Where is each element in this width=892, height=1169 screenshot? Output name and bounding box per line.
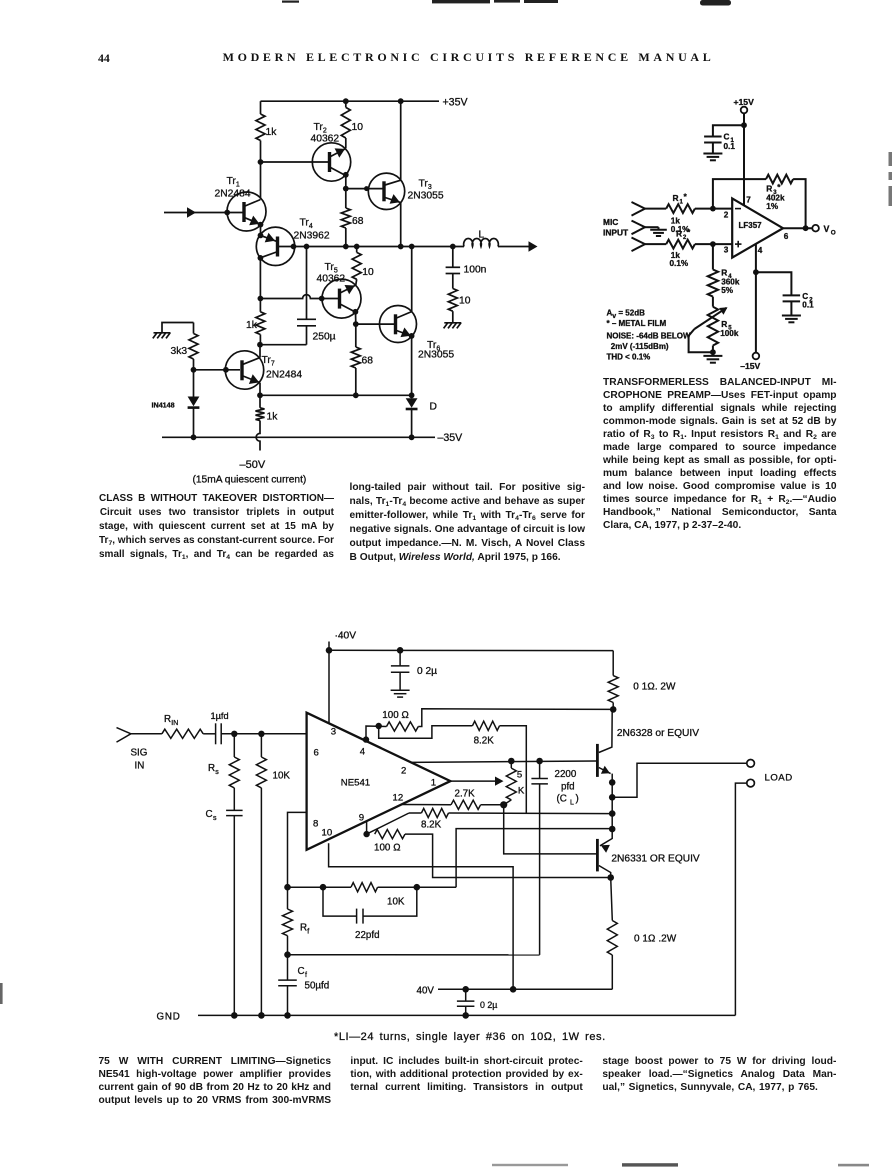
svg-text:2N2484: 2N2484 [266, 370, 302, 381]
svg-text:0 2µ: 0 2µ [480, 1000, 497, 1010]
wire 40V row [417, 986, 613, 997]
wire Tr5 base with hop [258, 295, 325, 302]
svg-text:5%: 5% [721, 286, 734, 295]
wire -35V rail [162, 432, 463, 444]
svg-text:2: 2 [724, 211, 729, 220]
svg-text:R: R [673, 193, 679, 203]
ground 0.2u [391, 690, 410, 697]
svg-text:10: 10 [322, 828, 333, 839]
svg-text:R: R [676, 229, 682, 239]
ground C1 [703, 154, 722, 161]
svg-text:40362: 40362 [317, 274, 346, 285]
svg-text:8: 8 [313, 819, 318, 830]
transistor Tr5 40362 [317, 262, 362, 318]
resistor 68 (upper) [341, 189, 363, 247]
svg-text:1µfd: 1µfd [211, 711, 229, 721]
wire mic input chevron mid + ground [632, 221, 667, 236]
svg-text:LOAD: LOAD [765, 773, 793, 784]
svg-text:40362: 40362 [311, 134, 340, 145]
junction dots on +35V rail [343, 98, 404, 104]
svg-text:R: R [208, 763, 215, 774]
svg-text:5: 5 [517, 770, 522, 781]
wire pin 6 [261, 733, 306, 735]
wire Tr7 emitter node row [257, 383, 414, 398]
capacitor C2 0.1 [756, 272, 814, 315]
node circuit 2 spec notes [607, 309, 691, 362]
wire 250u bottom to Tr7 collector node [257, 342, 306, 348]
svg-text:0.1: 0.1 [724, 142, 736, 151]
wire Rf bottom to 2200pfd column [288, 954, 540, 956]
svg-text:–15V: –15V [740, 361, 760, 371]
capacitor 22pfd [323, 887, 417, 941]
svg-text:·40V: ·40V [335, 631, 357, 642]
svg-text:3k3: 3k3 [171, 346, 188, 357]
svg-text:MIC: MIC [603, 217, 618, 227]
svg-text:f: f [307, 929, 309, 936]
wire output pin 6 [783, 225, 812, 231]
svg-text:9: 9 [359, 813, 364, 824]
svg-text:10: 10 [362, 267, 374, 278]
svg-text:INPUT: INPUT [603, 228, 629, 238]
wire Tr1 emitter to Tr4 emitter node [258, 222, 264, 239]
node +35V label [443, 97, 469, 109]
resistor 1k (Tr7 collector) [246, 299, 265, 345]
op-amp U1 LF357 [724, 196, 789, 258]
wire Tr3 base [346, 186, 383, 191]
svg-text:2: 2 [401, 766, 406, 777]
node MIC INPUT labels [603, 217, 629, 238]
svg-text:12: 12 [393, 793, 404, 804]
capacitor 0.2u (lower) [457, 989, 497, 1015]
svg-text:10K: 10K [387, 897, 405, 908]
svg-text:6: 6 [784, 232, 789, 241]
svg-text:1: 1 [431, 778, 436, 789]
svg-text:C: C [724, 133, 730, 142]
node footnote L1 [334, 1031, 606, 1043]
resistor 0.1ohm 2W (upper) [608, 651, 676, 713]
resistor RIN [162, 714, 216, 738]
svg-text:3: 3 [724, 246, 729, 255]
svg-text:2200: 2200 [555, 769, 577, 780]
wire Tr3 collector to +35V rail [400, 101, 402, 180]
svg-text:+15V: +15V [734, 97, 755, 107]
node Tr2 collector [343, 172, 349, 192]
caption mic preamp column [603, 376, 837, 532]
svg-text:s: s [215, 769, 219, 776]
wire Tr3 emitter to output rail [400, 203, 402, 247]
ground C2 [782, 316, 801, 323]
wire output rail [295, 241, 538, 251]
resistor 2.7K (pin 12) [403, 789, 504, 810]
resistor Rs [208, 734, 239, 811]
op-amp U2 NE541 [307, 713, 451, 850]
wire Tr2 base from 1k node [258, 159, 329, 165]
svg-text:IN4148: IN4148 [152, 401, 175, 410]
terminal LOAD lower [747, 773, 793, 787]
capacitor Cf 50ufd [278, 955, 329, 1016]
svg-text:Tr3: Tr3 [419, 179, 432, 192]
capacitor C1 0.1 [704, 125, 744, 153]
wire -40V top rail [329, 647, 613, 654]
scan artifact top edge marks [282, 0, 731, 6]
wire mic input chevron top [632, 202, 667, 216]
resistor R3 402k 1% feedback [713, 175, 806, 229]
svg-text:Tr1: Tr1 [227, 176, 240, 189]
svg-text:4: 4 [758, 246, 763, 255]
svg-text:GND: GND [157, 1012, 181, 1023]
wire -40V vertical to pin 3 [326, 642, 333, 724]
svg-text:2N3962: 2N3962 [294, 231, 330, 242]
svg-text:L: L [570, 800, 574, 807]
resistor R1 1k 0.1% [666, 192, 732, 235]
caption class B left column [99, 492, 334, 562]
svg-text:2N3055: 2N3055 [408, 191, 444, 202]
svg-text:1%: 1% [766, 202, 779, 211]
svg-text:–35V: –35V [438, 432, 464, 444]
svg-text:100k: 100k [720, 329, 739, 338]
svg-text:0 2µ: 0 2µ [417, 666, 437, 677]
resistor 10K (feedback) [284, 883, 456, 908]
svg-text:R: R [766, 184, 772, 194]
capacitor 100n [446, 247, 487, 289]
scan artifact right edge dashes [889, 152, 892, 206]
svg-text:Tr4: Tr4 [300, 218, 313, 231]
svg-text:IN: IN [135, 761, 145, 772]
svg-text:8.2K: 8.2K [421, 820, 442, 831]
wire mic input chevron bottom [632, 238, 667, 252]
caption 75W col C [602, 1056, 836, 1095]
capacitor 1ufd [211, 711, 265, 744]
wire +35V rail [261, 100, 440, 102]
svg-text:R: R [721, 268, 727, 278]
svg-text:*: * [684, 192, 688, 202]
svg-text:IN: IN [171, 720, 178, 727]
svg-text:(15mA quiescent current): (15mA quiescent current) [193, 475, 307, 486]
svg-text:THD < 0.1%: THD < 0.1% [607, 353, 651, 362]
svg-text:10: 10 [352, 122, 364, 133]
wire 10K right up to output node [456, 829, 612, 888]
svg-text:10: 10 [459, 296, 471, 307]
potentiometer 5K [504, 761, 525, 805]
svg-text:2N3055: 2N3055 [418, 350, 454, 361]
capacitor Cs [206, 809, 243, 1015]
svg-text:1k: 1k [671, 216, 681, 225]
transistor Tr6 2N3055 [380, 306, 455, 361]
junction dots on output rail [304, 244, 456, 250]
wire pin 8 down [288, 812, 307, 887]
resistor 3k3 [171, 323, 199, 370]
wire 2N6331 base [500, 801, 596, 854]
resistor R2 1k 0.1% [666, 227, 732, 268]
svg-text:+35V: +35V [443, 97, 469, 109]
resistor 8.2K (lower) on diagonal [367, 808, 613, 834]
resistor 10 (output zobel) [448, 289, 470, 323]
wire pin 9 stub [363, 822, 369, 838]
transistor Tr7 2N2484 [225, 351, 302, 389]
svg-text:0.1: 0.1 [802, 300, 814, 309]
svg-text:R: R [164, 714, 171, 725]
svg-text:K: K [518, 786, 525, 797]
svg-text:68: 68 [352, 216, 364, 227]
wire LOAD lower to GND rail [735, 783, 746, 1015]
ground (3k3 top) [153, 323, 194, 339]
resistor 100ohm (pin 4) [363, 710, 419, 743]
node -50V label [193, 459, 307, 486]
svg-text:pfd: pfd [561, 782, 575, 793]
svg-text:NE541: NE541 [341, 778, 370, 789]
capacitor 250u [297, 247, 336, 345]
diode IN4148 [152, 370, 200, 438]
caption 75W col A [99, 1056, 332, 1108]
wire Tr6 collector to output rail [411, 247, 413, 312]
svg-text:SIG: SIG [131, 748, 148, 759]
node -40V label [335, 631, 357, 642]
inductor L [464, 230, 499, 247]
svg-text:8.2K: 8.2K [474, 736, 495, 747]
ground (zobel) [444, 323, 462, 329]
svg-text:*: * [687, 227, 691, 237]
svg-text:V: V [824, 224, 830, 234]
svg-text:D: D [430, 402, 437, 413]
transistor Tr3 2N3055 [368, 173, 444, 209]
transistor Tr2 40362 [311, 122, 351, 181]
svg-text:6: 6 [314, 748, 319, 759]
transistor Tr1 2N2484 [215, 176, 267, 231]
transistor Q1 2N6328 [597, 709, 699, 832]
svg-text:O: O [831, 230, 836, 237]
svg-text:68: 68 [362, 356, 374, 367]
wire Tr6 emitter down [411, 336, 413, 395]
scan artifact left edge mark [0, 983, 3, 1004]
svg-text:1k: 1k [266, 127, 278, 138]
svg-text:*LI—24 turns, single layer #36: *LI—24 turns, single layer #36 on 10Ω, 1… [334, 1031, 606, 1043]
wire left column Tr4 collector down [258, 255, 264, 299]
svg-text:* – METAL FILM: * – METAL FILM [607, 319, 667, 328]
svg-text:Tr7: Tr7 [262, 355, 275, 368]
wire signal input chevron [117, 728, 162, 772]
svg-text:7: 7 [746, 196, 751, 205]
svg-text:100 Ω: 100 Ω [374, 843, 401, 854]
wire pin 1 output arrow [450, 777, 503, 786]
svg-text:0.1%: 0.1% [670, 259, 689, 268]
transistor Tr4 2N3962 (pnp) [256, 218, 330, 266]
wire left column Tr1 collector up to 1k node [260, 162, 262, 200]
wire 0.1ohm bottom to 100ohm right [418, 709, 613, 727]
wire Tr5 collector to Tr6 base node [353, 309, 359, 327]
svg-text:100n: 100n [464, 265, 487, 276]
resistor 8.2K (upper) with jog [379, 721, 527, 813]
wire Tr7 collector [259, 345, 261, 358]
svg-text:–50V: –50V [240, 459, 266, 471]
svg-text:): ) [576, 794, 579, 805]
caption 75W col B [350, 1056, 582, 1095]
wire input with arrow [164, 207, 243, 217]
caption class B middle column [350, 481, 586, 565]
svg-text:0 1Ω. 2W: 0 1Ω. 2W [633, 682, 676, 693]
svg-text:1k: 1k [246, 320, 258, 331]
resistor 1k (to -50V) with hop over -35V rail [256, 395, 279, 450]
page header [0, 0, 892, 1]
svg-text:40V: 40V [417, 986, 435, 997]
resistor Rf [283, 887, 310, 958]
potentiometer R5 100k [689, 307, 739, 356]
terminal -15V [740, 353, 760, 371]
scan artifact bottom edge marks [492, 1163, 869, 1166]
svg-text:22pfd: 22pfd [355, 930, 380, 941]
svg-text:2.7K: 2.7K [455, 789, 476, 800]
ground R5 [703, 356, 722, 363]
diode D [406, 395, 437, 437]
wire GND rail [157, 1012, 736, 1023]
terminal VO [812, 224, 836, 237]
svg-text:2mV (-115dBm): 2mV (-115dBm) [611, 342, 669, 351]
wire pin 10 to 40V node [329, 843, 513, 989]
capacitor 0.2u (top) [391, 650, 437, 690]
terminal LOAD upper [747, 760, 755, 768]
svg-text:LF357: LF357 [739, 221, 763, 230]
svg-text:(C: (C [557, 794, 567, 805]
svg-text:4: 4 [360, 747, 366, 758]
svg-text:f: f [305, 972, 307, 979]
svg-text:10K: 10K [273, 771, 291, 782]
svg-text:1k: 1k [267, 412, 279, 423]
svg-text:NOISE: -64dB BELOW: NOISE: -64dB BELOW [607, 332, 691, 341]
svg-text:3: 3 [331, 727, 336, 738]
wire LOAD upper [612, 763, 747, 797]
svg-text:R: R [721, 319, 727, 329]
terminal +15V [734, 97, 755, 113]
svg-text:50µfd: 50µfd [305, 981, 330, 992]
svg-text:2N2484: 2N2484 [215, 189, 251, 200]
wire Tr6 base [356, 323, 394, 325]
wire +15V down to pin 7 [741, 113, 747, 205]
svg-text:R: R [300, 923, 307, 934]
capacitor 2200pfd CL [531, 761, 578, 955]
resistor 10K (input) [256, 734, 290, 1016]
wire Tr7 base [191, 367, 240, 373]
svg-text:2N6331 OR EQUIV: 2N6331 OR EQUIV [611, 854, 700, 865]
svg-text:L: L [479, 230, 485, 241]
svg-text:0 1Ω .2W: 0 1Ω .2W [634, 934, 677, 945]
resistor 10 (Tr5 emitter) [352, 247, 374, 286]
wire pin 2 to pot top [411, 758, 596, 765]
transistor Q2 2N6331 [597, 829, 700, 881]
resistor 68 (lower) [351, 324, 373, 395]
svg-text:C: C [206, 809, 213, 820]
resistor 10 (Tr2 emitter) [341, 101, 363, 148]
resistor 1k (top left) [256, 101, 277, 162]
svg-text:2N6328 or EQUIV: 2N6328 or EQUIV [617, 728, 699, 739]
svg-text:C: C [298, 966, 305, 977]
svg-text:100 Ω: 100 Ω [382, 710, 409, 721]
resistor 100ohm (pin 9) [374, 830, 611, 878]
svg-text:250µ: 250µ [313, 332, 336, 343]
resistor R4 360k 5% [708, 244, 740, 307]
wire pin 4 down [753, 244, 759, 353]
svg-text:s: s [213, 815, 217, 822]
resistor 0.1ohm 2W (lower) [607, 878, 676, 990]
